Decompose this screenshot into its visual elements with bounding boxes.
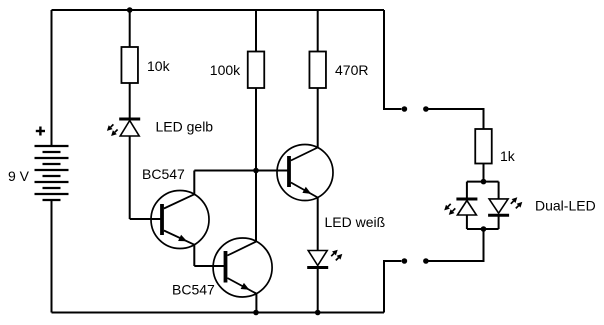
wire dual-LED left branch upper	[466, 182, 468, 199]
wire battery - to bottom rail	[51, 200, 53, 313]
resistor R3 470R	[309, 52, 326, 89]
wire node A to Q2 collector	[255, 171, 257, 242]
label LED gelb	[156, 119, 214, 135]
wire R2 to node A	[255, 88, 257, 171]
wire bottom rail right drop	[384, 261, 401, 313]
svg-text:Dual-LED: Dual-LED	[535, 198, 596, 214]
wire LED gelb to Q1 base	[129, 136, 131, 219]
battery BT1 9V	[35, 146, 69, 200]
svg-text:LED weiß: LED weiß	[325, 214, 386, 230]
wire top rail	[52, 9, 385, 11]
resistor R4 1k	[475, 129, 492, 164]
junction LED weiss / bottom rail	[315, 310, 321, 316]
wire dual-LED right branch upper	[498, 182, 500, 199]
label LED weiss	[325, 214, 386, 230]
junction top rail / R1 branch	[127, 7, 133, 13]
svg-text:LED gelb: LED gelb	[156, 119, 214, 135]
wire dual-LED top rail	[467, 181, 499, 183]
label 10k	[147, 58, 171, 74]
junction dual-LED bottom node	[481, 226, 487, 232]
wire R4 to dual-LED top	[483, 164, 485, 182]
transistor Q3 BC547	[256, 145, 333, 201]
svg-text:470R: 470R	[335, 62, 368, 78]
wire dual-LED bottom rail	[467, 228, 499, 230]
svg-text:BC547: BC547	[172, 282, 215, 298]
svg-text:100k: 100k	[210, 62, 241, 78]
contact dot top right	[423, 106, 429, 112]
wire dual-LED left branch lower	[466, 215, 468, 229]
svg-text:9 V: 9 V	[8, 168, 30, 184]
contact dot top left	[402, 106, 408, 112]
wire Q2 emitter to bottom rail	[255, 294, 257, 313]
wire Q1 collector up	[193, 171, 195, 195]
wire node A to Q3 base	[256, 170, 289, 172]
wire Q1 collector to node A	[194, 170, 256, 172]
battery plus sign	[36, 127, 45, 136]
transistor Q1 BC547	[130, 191, 209, 249]
svg-text:BC547: BC547	[142, 166, 185, 182]
LED D3 dual-LED left	[444, 199, 477, 215]
junction dual-LED top node	[481, 179, 487, 185]
wire top rail to R1	[129, 10, 131, 47]
transistor Q2 BC547	[194, 238, 272, 297]
label 1k	[500, 148, 516, 164]
svg-text:1k: 1k	[500, 148, 516, 164]
svg-text:10k: 10k	[147, 58, 171, 74]
wire left rail to battery +	[51, 10, 53, 146]
label 470R	[335, 62, 368, 78]
LED D2 weiss	[307, 250, 342, 268]
wire R1 to LED gelb	[129, 83, 131, 119]
wire top rail to R3	[317, 10, 319, 52]
LED D1 gelb	[107, 119, 140, 136]
contact dot bottom left	[402, 258, 408, 264]
resistor R2 100k	[248, 52, 265, 89]
wire top contact to R4	[428, 109, 484, 129]
contact dot bottom right	[423, 258, 429, 264]
wire R3 to Q3 collector	[317, 88, 319, 148]
wire top rail to R2	[255, 10, 257, 52]
label BC547 Q2	[172, 282, 215, 298]
wire LED weiss to bottom rail	[317, 269, 319, 313]
label 9 V	[8, 168, 30, 184]
resistor R1 10k	[121, 47, 138, 83]
label 100k	[210, 62, 241, 78]
junction node A	[253, 168, 259, 174]
wire bottom rail	[52, 312, 385, 314]
wire Q3 emitter to LED weiss	[317, 197, 319, 250]
junction Q2 emitter / bottom rail	[253, 310, 259, 316]
wire bottom contact to dual-LED	[428, 229, 484, 261]
wire dual-LED right branch lower	[498, 215, 500, 229]
LED D4 dual-LED right	[488, 197, 522, 215]
wire Q1 emitter down	[193, 245, 195, 266]
wire top rail right drop	[384, 10, 401, 109]
label BC547 Q1	[142, 166, 185, 182]
label Dual-LED	[535, 198, 596, 214]
